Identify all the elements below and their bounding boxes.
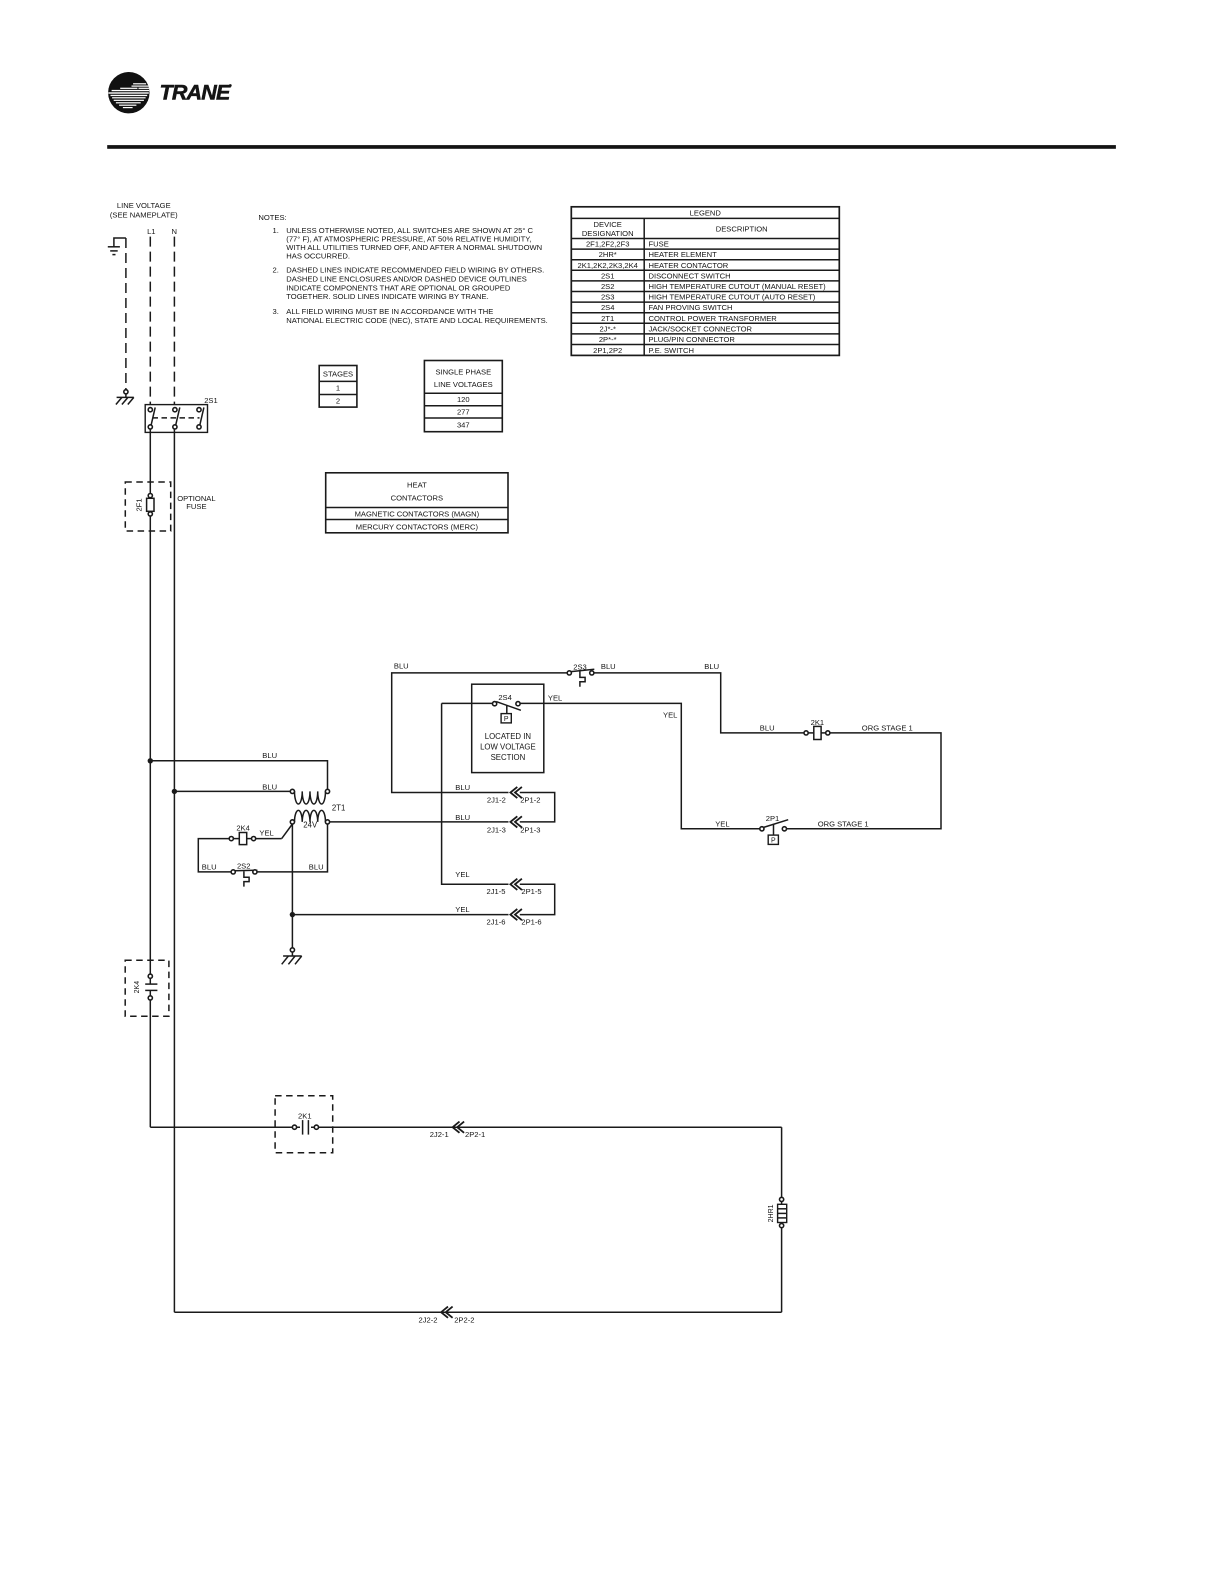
svg-text:2S1: 2S1 bbox=[204, 396, 218, 405]
svg-text:MERCURY CONTACTORS (MERC): MERCURY CONTACTORS (MERC) bbox=[356, 522, 479, 531]
svg-text:2S2: 2S2 bbox=[237, 861, 251, 870]
svg-text:24V: 24V bbox=[303, 820, 318, 829]
svg-text:2J1-3: 2J1-3 bbox=[487, 825, 506, 834]
svg-text:2S2: 2S2 bbox=[601, 282, 615, 291]
wire 2K4 loop left bbox=[198, 839, 231, 872]
svg-text:2K1: 2K1 bbox=[298, 1112, 312, 1121]
svg-text:LOCATED IN: LOCATED IN bbox=[485, 732, 531, 741]
svg-text:2HR1: 2HR1 bbox=[768, 1204, 775, 1222]
heater element 2HR1 bbox=[768, 1127, 787, 1228]
svg-text:ORG STAGE 1: ORG STAGE 1 bbox=[818, 820, 869, 829]
svg-text:2F1: 2F1 bbox=[135, 498, 144, 511]
svg-text:LOW VOLTAGE: LOW VOLTAGE bbox=[480, 743, 536, 752]
svg-text:CONTROL POWER TRANSFORMER: CONTROL POWER TRANSFORMER bbox=[649, 314, 778, 323]
svg-text:DASHED LINES INDICATE RECOMMEN: DASHED LINES INDICATE RECOMMENDED FIELD … bbox=[286, 266, 544, 275]
wire BLU top to 2S3 bbox=[392, 673, 568, 793]
svg-text:BLU: BLU bbox=[601, 662, 616, 671]
svg-text:FUSE: FUSE bbox=[186, 502, 206, 511]
Trane logo globe bbox=[108, 72, 149, 113]
wire ground dashed bbox=[125, 238, 127, 390]
svg-text:SINGLE PHASE: SINGLE PHASE bbox=[435, 367, 491, 376]
svg-text:JACK/SOCKET CONNECTOR: JACK/SOCKET CONNECTOR bbox=[649, 324, 753, 333]
connector 2J1-3 / 2P1-3 bbox=[487, 816, 541, 834]
svg-text:DASHED LINE ENCLOSURES AND/OR: DASHED LINE ENCLOSURES AND/OR DASHED DEV… bbox=[286, 275, 527, 284]
svg-text:2S4: 2S4 bbox=[601, 303, 615, 312]
svg-text:277: 277 bbox=[457, 408, 470, 417]
ground terminal 2 bbox=[290, 948, 294, 952]
stages table bbox=[319, 366, 357, 408]
svg-text:HAS OCCURRED.: HAS OCCURRED. bbox=[286, 252, 350, 261]
wire BLU L1 to transformer primary bbox=[150, 761, 327, 790]
svg-text:2J*-*: 2J*-* bbox=[599, 324, 616, 333]
svg-text:L1: L1 bbox=[147, 227, 155, 236]
svg-text:P: P bbox=[504, 716, 509, 723]
connector 2J1-2 / 2P1-2 bbox=[487, 787, 541, 804]
svg-text:BLU: BLU bbox=[704, 662, 719, 671]
svg-text:TOGETHER. SOLID LINES INDICAT: TOGETHER. SOLID LINES INDICATE WIRING BY… bbox=[286, 292, 488, 301]
wire YEL to 2K4 coil bbox=[256, 838, 282, 840]
header rule bbox=[107, 145, 1116, 149]
svg-text:2S4: 2S4 bbox=[498, 693, 512, 702]
svg-text:2S3: 2S3 bbox=[601, 293, 615, 302]
wire ORG STAGE 1 to 2P1 bbox=[787, 733, 941, 829]
svg-text:2S3: 2S3 bbox=[573, 663, 587, 672]
svg-text:2P2-1: 2P2-1 bbox=[465, 1130, 485, 1139]
svg-text:DISCONNECT SWITCH: DISCONNECT SWITCH bbox=[649, 271, 731, 280]
svg-text:2S1: 2S1 bbox=[601, 271, 615, 280]
svg-text:SECTION: SECTION bbox=[491, 753, 526, 762]
svg-text:2J1-6: 2J1-6 bbox=[487, 918, 506, 927]
chassis ground bbox=[116, 394, 134, 405]
low voltage section box bbox=[472, 684, 544, 772]
wire N dashed bbox=[173, 237, 175, 405]
svg-text:YEL: YEL bbox=[715, 820, 729, 829]
chassis ground 2 bbox=[282, 952, 302, 964]
svg-text:BLU: BLU bbox=[262, 783, 277, 792]
svg-text:2K1,2K2,2K3,2K4: 2K1,2K2,2K3,2K4 bbox=[578, 261, 638, 270]
svg-text:NATIONAL ELECTRIC CODE (NEC),: NATIONAL ELECTRIC CODE (NEC), STATE AND … bbox=[286, 316, 547, 325]
contact 2K1 bbox=[292, 1112, 318, 1135]
svg-text:MAGNETIC CONTACTORS (MAGN): MAGNETIC CONTACTORS (MAGN) bbox=[355, 509, 480, 518]
heat contactors table bbox=[326, 473, 508, 533]
svg-text:BLU: BLU bbox=[760, 723, 775, 732]
svg-text:BLU: BLU bbox=[455, 783, 470, 792]
coil 2K4 bbox=[229, 824, 256, 845]
wire BLU secondary to 2J1-3 bbox=[330, 821, 509, 823]
svg-text:HIGH TEMPERATURE CUTOUT (MANUA: HIGH TEMPERATURE CUTOUT (MANUAL RESET) bbox=[649, 282, 827, 291]
wire secondary left vertical to ground bbox=[291, 824, 293, 948]
switch 2S2 bbox=[231, 861, 257, 886]
svg-text:1: 1 bbox=[336, 384, 340, 393]
transformer 2T1 bbox=[290, 789, 345, 829]
svg-text:(SEE NAMEPLATE): (SEE NAMEPLATE) bbox=[110, 211, 178, 220]
svg-text:347: 347 bbox=[457, 421, 470, 430]
junction N/BLU bbox=[172, 789, 177, 794]
svg-text:2J1-5: 2J1-5 bbox=[487, 887, 506, 896]
svg-text:2.: 2. bbox=[273, 266, 279, 275]
connector 2J2-2 / 2P2-2 bbox=[419, 1307, 475, 1325]
svg-text:2P1-2: 2P1-2 bbox=[520, 795, 540, 804]
svg-text:2P1-5: 2P1-5 bbox=[521, 887, 541, 896]
svg-text:YEL: YEL bbox=[663, 711, 677, 720]
svg-text:2K4: 2K4 bbox=[134, 981, 141, 994]
switch 2S3 bbox=[567, 663, 594, 687]
svg-text:HIGH TEMPERATURE CUTOUT (AUTO: HIGH TEMPERATURE CUTOUT (AUTO RESET) bbox=[649, 293, 816, 302]
wire heater branch bbox=[150, 1126, 781, 1128]
svg-text:2T1: 2T1 bbox=[601, 314, 614, 323]
wire YEL 2P1 to 2S4 bbox=[520, 703, 760, 828]
wire 2P1-5 jumper 2P1-6 bbox=[520, 884, 555, 914]
svg-text:N: N bbox=[172, 227, 177, 236]
svg-text:TRANE: TRANE bbox=[160, 81, 232, 105]
svg-text:FUSE: FUSE bbox=[649, 240, 669, 249]
svg-text:BLU: BLU bbox=[455, 813, 470, 822]
wire 2S2 to secondary right bbox=[257, 824, 328, 872]
svg-text:HEAT: HEAT bbox=[407, 480, 427, 489]
junction YEL bbox=[290, 912, 295, 917]
svg-text:YEL: YEL bbox=[455, 870, 469, 879]
svg-text:2J2-2: 2J2-2 bbox=[419, 1316, 438, 1325]
svg-text:YEL: YEL bbox=[259, 828, 273, 837]
coil 2K1 bbox=[804, 718, 830, 740]
wire YEL 2S4 down to 2J1-5 bbox=[442, 703, 509, 884]
svg-text:P: P bbox=[771, 838, 776, 845]
svg-text:2K1: 2K1 bbox=[811, 718, 825, 727]
wire N vertical bbox=[173, 429, 175, 1312]
wire BLU N to transformer primary bbox=[174, 790, 290, 792]
svg-text:2J2-1: 2J2-1 bbox=[430, 1130, 449, 1139]
fan proving switch 2S4 bbox=[442, 693, 521, 723]
pe switch 2P1 bbox=[760, 814, 788, 845]
svg-text:DEVICE: DEVICE bbox=[594, 220, 622, 229]
svg-text:YEL: YEL bbox=[455, 905, 469, 914]
svg-text:2P2-2: 2P2-2 bbox=[454, 1316, 474, 1325]
svg-text:HEATER CONTACTOR: HEATER CONTACTOR bbox=[649, 261, 729, 270]
svg-text:ORG STAGE 1: ORG STAGE 1 bbox=[862, 723, 913, 732]
label LINE VOLTAGE bbox=[110, 201, 178, 219]
connector 2J1-6 / 2P1-6 bbox=[487, 909, 542, 927]
svg-text:2J1-2: 2J1-2 bbox=[487, 795, 506, 804]
wire YEL junction to 2J1-6 bbox=[292, 914, 508, 916]
earth ground (line voltage) bbox=[108, 238, 126, 255]
wire L1 vertical bbox=[149, 429, 151, 974]
wire heater to bottom bbox=[781, 1228, 783, 1313]
svg-text:LEGEND: LEGEND bbox=[690, 209, 722, 218]
svg-text:2K4: 2K4 bbox=[236, 824, 250, 833]
svg-text:ALL FIELD WIRING MUST BE IN AC: ALL FIELD WIRING MUST BE IN ACCORDANCE W… bbox=[286, 307, 493, 316]
fuse 2F1 bbox=[135, 494, 155, 517]
svg-text:120: 120 bbox=[457, 395, 470, 404]
legend table bbox=[571, 207, 839, 356]
wire 2P1-2 jumper 2P1-3 bbox=[520, 793, 555, 822]
svg-text:BLU: BLU bbox=[262, 751, 277, 760]
svg-text:2T1: 2T1 bbox=[332, 804, 345, 813]
svg-text:P.E. SWITCH: P.E. SWITCH bbox=[649, 346, 694, 355]
svg-text:BLU: BLU bbox=[309, 862, 324, 871]
svg-text:2P1-6: 2P1-6 bbox=[521, 918, 541, 927]
svg-text:2P1,2P2: 2P1,2P2 bbox=[593, 346, 622, 355]
single phase line voltages table bbox=[424, 361, 502, 432]
svg-text:2: 2 bbox=[336, 397, 340, 406]
optional fuse dashed enclosure bbox=[125, 482, 170, 531]
notes text block bbox=[258, 213, 547, 325]
svg-text:FAN PROVING SWITCH: FAN PROVING SWITCH bbox=[649, 303, 733, 312]
svg-text:NOTES:: NOTES: bbox=[258, 213, 286, 222]
svg-text:1.: 1. bbox=[273, 226, 279, 235]
svg-text:INDICATE COMPONENTS THAT ARE O: INDICATE COMPONENTS THAT ARE OPTIONAL OR… bbox=[286, 283, 511, 292]
svg-text:2F1,2F2,2F3: 2F1,2F2,2F3 bbox=[586, 240, 629, 249]
svg-text:2P1-3: 2P1-3 bbox=[520, 825, 540, 834]
svg-text:3.: 3. bbox=[273, 307, 279, 316]
contact 2K4 bbox=[134, 974, 158, 1000]
junction L1/BLU bbox=[148, 758, 153, 763]
svg-text:CONTACTORS: CONTACTORS bbox=[391, 494, 443, 503]
svg-text:DESIGNATION: DESIGNATION bbox=[582, 229, 634, 238]
svg-text:LINE VOLTAGES: LINE VOLTAGES bbox=[434, 380, 493, 389]
contactor 2K1 dashed enclosure bbox=[275, 1096, 333, 1153]
svg-text:2P*-*: 2P*-* bbox=[599, 335, 617, 344]
wire L1 lower vertical bbox=[149, 1000, 151, 1127]
wire bottom return bbox=[174, 1311, 781, 1313]
svg-text:2HR*: 2HR* bbox=[599, 250, 617, 259]
wire L1 dashed bbox=[149, 237, 151, 405]
svg-text:BLU: BLU bbox=[202, 862, 217, 871]
svg-text:HEATER ELEMENT: HEATER ELEMENT bbox=[649, 250, 718, 259]
svg-text:STAGES: STAGES bbox=[323, 369, 353, 378]
connector 2J1-5 / 2P1-5 bbox=[487, 879, 542, 896]
connector 2J2-1 / 2P2-1 bbox=[430, 1122, 486, 1140]
svg-text:YEL: YEL bbox=[548, 693, 562, 702]
disconnect switch 2S1 bbox=[145, 396, 218, 433]
svg-text:BLU: BLU bbox=[394, 662, 409, 671]
ground terminal bbox=[124, 390, 128, 394]
svg-text:DESCRIPTION: DESCRIPTION bbox=[716, 225, 768, 234]
svg-text:LINE VOLTAGE: LINE VOLTAGE bbox=[117, 201, 171, 210]
contactor 2K4 dashed enclosure bbox=[125, 960, 169, 1016]
wire secondary left diagonal bbox=[282, 824, 293, 839]
wire BLU 2S3 to 2K1 coil bbox=[594, 673, 804, 733]
svg-text:2P1: 2P1 bbox=[766, 814, 780, 823]
svg-text:PLUG/PIN CONNECTOR: PLUG/PIN CONNECTOR bbox=[649, 335, 736, 344]
